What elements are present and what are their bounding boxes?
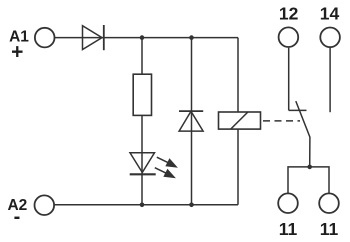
svg-text:14: 14 [320, 4, 340, 24]
svg-text:12: 12 [279, 4, 299, 24]
svg-text:11: 11 [279, 219, 298, 239]
svg-text:11: 11 [320, 219, 339, 239]
svg-text:+: + [11, 40, 23, 63]
svg-text:-: - [14, 206, 21, 228]
